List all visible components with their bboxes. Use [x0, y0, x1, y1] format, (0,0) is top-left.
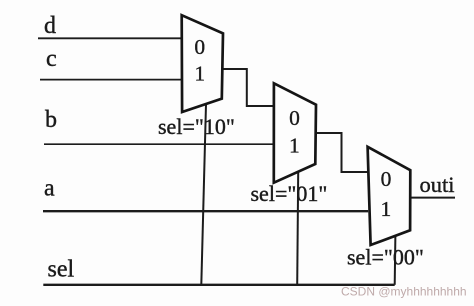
svg-text:outi: outi [420, 172, 455, 197]
wire sel [43, 284, 394, 286]
mux U3 [368, 147, 411, 245]
svg-text:sel: sel [48, 257, 75, 283]
wire a [43, 210, 368, 212]
svg-text:d: d [44, 13, 56, 39]
svg-text:sel="01": sel="01" [251, 181, 328, 206]
mux U2 [274, 83, 316, 182]
svg-text:a: a [44, 176, 55, 202]
wire d [38, 37, 182, 39]
svg-text:sel="10": sel="10" [158, 114, 235, 139]
wire U2 select [297, 172, 298, 284]
wire U1 select [201, 104, 206, 285]
svg-text:0: 0 [194, 35, 205, 59]
svg-text:0: 0 [381, 167, 392, 191]
svg-text:sel="00": sel="00" [347, 245, 424, 270]
wire U2 output [316, 133, 369, 172]
svg-text:1: 1 [194, 62, 205, 86]
mux U1 [182, 15, 223, 112]
wire b [44, 143, 274, 145]
wire U3 select [394, 235, 397, 285]
svg-text:1: 1 [381, 197, 392, 221]
svg-text:c: c [46, 46, 57, 72]
svg-text:1: 1 [289, 134, 300, 158]
svg-text:0: 0 [289, 106, 300, 130]
svg-text:CSDN @myhhhhhhhhh: CSDN @myhhhhhhhhh [341, 285, 467, 299]
wire c [40, 79, 182, 81]
wire U3 output [411, 197, 455, 199]
svg-text:b: b [45, 107, 57, 133]
wire U1 output [222, 69, 273, 106]
